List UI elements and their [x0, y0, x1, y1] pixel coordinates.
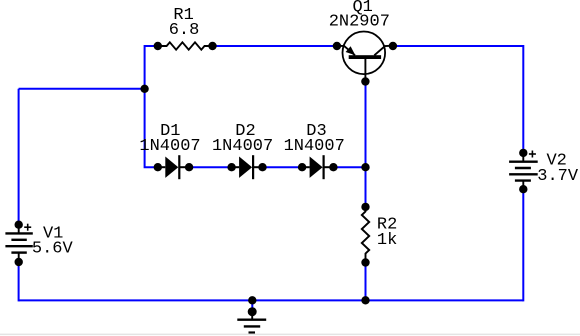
junction: D2 cathode: [258, 163, 266, 171]
junction: R1 right terminal: [208, 42, 216, 50]
svg-text:1N4007: 1N4007: [212, 137, 273, 156]
junction: Q1 base terminal: [361, 77, 369, 85]
wire: V1 bottom to bottom rail: [18, 262, 20, 301]
junction: V1 positive terminal: [15, 221, 23, 229]
junction: V2 positive terminal: [519, 149, 527, 157]
junction: R1 left terminal: [154, 42, 162, 50]
wire: top-left corner from node row down to diode row: [145, 46, 158, 167]
wire: Q1 base down through diode node to R2: [365, 82, 367, 207]
plus sign V2: [529, 151, 536, 158]
svg-text:1N4007: 1N4007: [139, 137, 200, 156]
wire: left vertical down to V1: [18, 89, 20, 225]
wire: bottom rail: [19, 299, 524, 301]
svg-text:1N4007: 1N4007: [284, 137, 345, 156]
junction: left branch node: [140, 85, 148, 93]
junction: D3 cathode: [329, 163, 337, 171]
wire: D2 to D3: [263, 166, 303, 168]
wire: R1 right terminal to Q1 emitter: [213, 45, 337, 47]
wire: Q1 collector to V2 top: [393, 46, 523, 153]
junction: Q1 collector terminal: [389, 42, 397, 50]
ground: [237, 312, 266, 333]
junction: diode row meets base line: [361, 163, 369, 171]
diode D1: [158, 155, 189, 179]
diode D3: [302, 155, 333, 179]
junction: Q1 emitter terminal: [333, 42, 341, 50]
junction: D2 anode: [227, 163, 235, 171]
svg-text:5.6V: 5.6V: [32, 240, 74, 259]
window edge line at bottom: [0, 334, 580, 336]
svg-text:2N2907: 2N2907: [329, 12, 390, 31]
junction: D1 anode: [154, 163, 162, 171]
battery V1: [5, 225, 32, 262]
wire: R2 bottom to bottom rail: [365, 263, 367, 301]
svg-text:1k: 1k: [377, 231, 397, 250]
wire: D3 to base node: [333, 166, 365, 168]
diode D2: [232, 155, 263, 179]
wire: V2 bottom to bottom rail: [522, 189, 524, 301]
junction: V1 negative terminal: [15, 258, 23, 266]
junction: D3 anode: [298, 163, 306, 171]
svg-text:6.8: 6.8: [169, 21, 200, 40]
svg-text:3.7V: 3.7V: [537, 167, 579, 186]
wire: D1 to D2: [189, 166, 232, 168]
resistor R2: [362, 207, 369, 263]
junction: V2 negative terminal: [519, 185, 527, 193]
junction: R2 top terminal: [361, 203, 369, 211]
wire: ground stub: [251, 300, 253, 311]
junction: R2 branch on bottom rail: [361, 296, 369, 304]
junction: D1 cathode: [185, 163, 193, 171]
resistor R1: [158, 42, 213, 49]
transistor Q1: [337, 32, 393, 82]
battery V2: [509, 153, 538, 189]
plus sign V1: [24, 224, 31, 231]
wire: left horizontal branch: [19, 88, 145, 90]
junction: ground tap on bottom rail: [248, 296, 256, 304]
junction: R2 bottom terminal: [361, 258, 369, 266]
junction: ground terminal: [248, 307, 257, 316]
